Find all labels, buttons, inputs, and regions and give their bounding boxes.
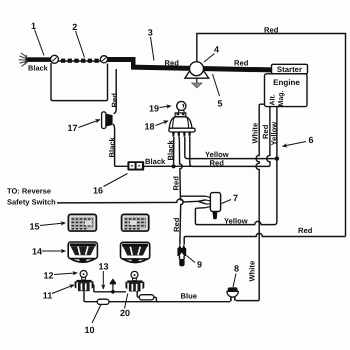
tail lamp (item 8) xyxy=(227,287,238,301)
svg-text:17: 17 xyxy=(67,123,77,133)
svg-text:13: 13 xyxy=(98,262,108,272)
svg-text:Yellow: Yellow xyxy=(224,217,248,226)
callout 4 xyxy=(204,45,219,63)
svg-text:Alt.: Alt. xyxy=(269,94,277,105)
callout 5 xyxy=(213,74,223,109)
svg-text:2: 2 xyxy=(72,22,77,32)
callout 9 xyxy=(187,256,203,270)
svg-text:Engine: Engine xyxy=(273,78,300,87)
svg-text:4: 4 xyxy=(214,45,219,55)
wire: red horizontal (bottom right) with hop over white wire xyxy=(184,233,345,244)
ground mount under solenoid xyxy=(185,71,209,87)
svg-text:8: 8 xyxy=(234,264,239,274)
svg-text:10: 10 xyxy=(84,325,94,335)
svg-text:14: 14 xyxy=(32,247,42,257)
wire: yellow vertical from engine Mag down to connector 7 loop xyxy=(195,107,277,225)
wire: fuse holder outline box xyxy=(51,63,108,101)
callout 20 xyxy=(120,294,130,319)
inline connector (item 9) xyxy=(177,244,186,266)
wire: right socket drop through fuse to bottom wire xyxy=(137,291,158,301)
wire: reverse safety switch line to connector 7 xyxy=(57,199,198,203)
callout 1 xyxy=(31,21,44,56)
engine box xyxy=(265,74,308,107)
wire: red drop from thick red wire to horn 17 xyxy=(114,69,117,114)
key (item 19) xyxy=(177,101,186,114)
terminal screw left xyxy=(51,55,59,63)
svg-text:Red: Red xyxy=(165,59,180,68)
lamp housing right (item 14b) xyxy=(121,242,150,262)
svg-text:Black: Black xyxy=(28,64,49,73)
wire: bottom blue wire from fuse 10 to lamp 8 xyxy=(109,301,230,303)
callout 12 xyxy=(43,271,77,281)
inline fuse (item 10) xyxy=(97,299,109,304)
svg-text:1: 1 xyxy=(31,21,36,31)
callout 14 xyxy=(32,247,66,257)
wire: between lamp sockets 11 and 12b xyxy=(92,285,126,292)
callout 16 xyxy=(93,174,128,196)
starter box xyxy=(272,64,308,74)
wire: white from engine down right side to lamp 8 xyxy=(236,104,265,300)
svg-text:Blue: Blue xyxy=(181,291,197,300)
callout 11 xyxy=(43,285,74,301)
dash connector block left (item 15) xyxy=(68,214,96,231)
callout 10 xyxy=(84,305,101,336)
junction dot: black wire / key switch xyxy=(172,164,176,168)
wire: thick red wire upper segment with jog xyxy=(108,57,272,72)
svg-text:12: 12 xyxy=(43,271,53,281)
svg-text:20: 20 xyxy=(120,308,130,318)
interlock connector (item 7) xyxy=(206,193,221,220)
svg-text:Red: Red xyxy=(234,58,249,67)
svg-text:Mag.: Mag. xyxy=(278,91,285,107)
svg-text:Yellow: Yellow xyxy=(270,122,279,146)
junction dot: yellow wires xyxy=(275,156,279,160)
horn/buzzer (item 17) xyxy=(102,112,113,129)
wire: top red loop from solenoid to right edge xyxy=(197,34,346,237)
dash connector block right (item 15b) xyxy=(122,214,149,231)
svg-text:18: 18 xyxy=(144,122,154,132)
svg-text:Red: Red xyxy=(110,93,119,108)
junction dot: lamp wire / reverse safety arrow xyxy=(111,290,115,294)
svg-text:7: 7 xyxy=(233,193,238,203)
svg-text:Red: Red xyxy=(210,159,225,168)
bulb + socket left (items 12, 11) xyxy=(75,271,94,292)
svg-text:Black: Black xyxy=(145,157,166,166)
wire: left socket bottom drop to bottom blue wire xyxy=(84,291,97,301)
wire: black horizontal through fuse block 16 xyxy=(115,165,192,167)
callout 7 xyxy=(222,193,239,204)
svg-text:Black: Black xyxy=(107,136,116,157)
callout 18 xyxy=(144,121,168,132)
svg-text:15: 15 xyxy=(29,222,39,232)
svg-text:16: 16 xyxy=(93,186,103,196)
svg-text:Red: Red xyxy=(298,226,313,235)
ignition switch (item 18) xyxy=(169,113,195,137)
wire: black from key switch pin1 down to junction xyxy=(173,137,175,164)
svg-text:Red: Red xyxy=(264,26,279,35)
wire: yellow from key switch pin3 to yellow vertical (junction dot) xyxy=(185,137,277,159)
inline fuse right (item 20 wire) xyxy=(139,295,154,300)
svg-text:Safety Switch: Safety Switch xyxy=(7,197,56,206)
reverse safety switch up-arrow symbol xyxy=(110,278,117,291)
svg-text:White: White xyxy=(248,261,257,282)
fuse block (item 16) xyxy=(127,161,144,170)
svg-text:Black: Black xyxy=(166,139,175,160)
svg-text:White: White xyxy=(251,123,260,144)
svg-text:19: 19 xyxy=(149,104,159,114)
wire: thick black battery lead xyxy=(27,57,52,62)
fusible link element (item 2) xyxy=(59,59,101,63)
solenoid terminal circle (item 4) xyxy=(190,62,204,76)
callout 17 xyxy=(67,120,100,133)
wire: red branch from T to connector 7 prong1 xyxy=(180,195,205,197)
lamp housing left (item 14) xyxy=(68,242,97,262)
callout 8 xyxy=(233,264,239,288)
svg-text:5: 5 xyxy=(217,99,222,109)
svg-text:9: 9 xyxy=(197,260,202,270)
svg-text:Red: Red xyxy=(172,217,181,232)
svg-text:Red: Red xyxy=(171,176,180,191)
callout 13 xyxy=(98,262,108,290)
svg-text:6: 6 xyxy=(308,135,313,145)
callout 2 xyxy=(72,22,84,58)
callout 15 xyxy=(29,222,65,232)
svg-text:11: 11 xyxy=(43,291,53,301)
svg-text:Starter: Starter xyxy=(277,65,302,74)
connector splay end (item 1) xyxy=(19,53,28,67)
wire: safety line fan to connector 7 prongs xyxy=(198,200,206,204)
wire: red from key switch pin4 right and up to engine Alt xyxy=(190,107,270,167)
svg-text:TO: Reverse: TO: Reverse xyxy=(7,187,51,196)
callout 6 xyxy=(283,135,314,146)
callout 19 xyxy=(149,104,171,114)
bulb + socket right xyxy=(126,271,145,291)
callout 3 xyxy=(148,28,154,61)
svg-text:3: 3 xyxy=(148,28,153,38)
wire: black from horn 17 down to corner xyxy=(113,124,116,166)
wire: red from key switch pin2 down to connector 9 xyxy=(179,137,183,245)
terminal screw right xyxy=(100,56,107,63)
